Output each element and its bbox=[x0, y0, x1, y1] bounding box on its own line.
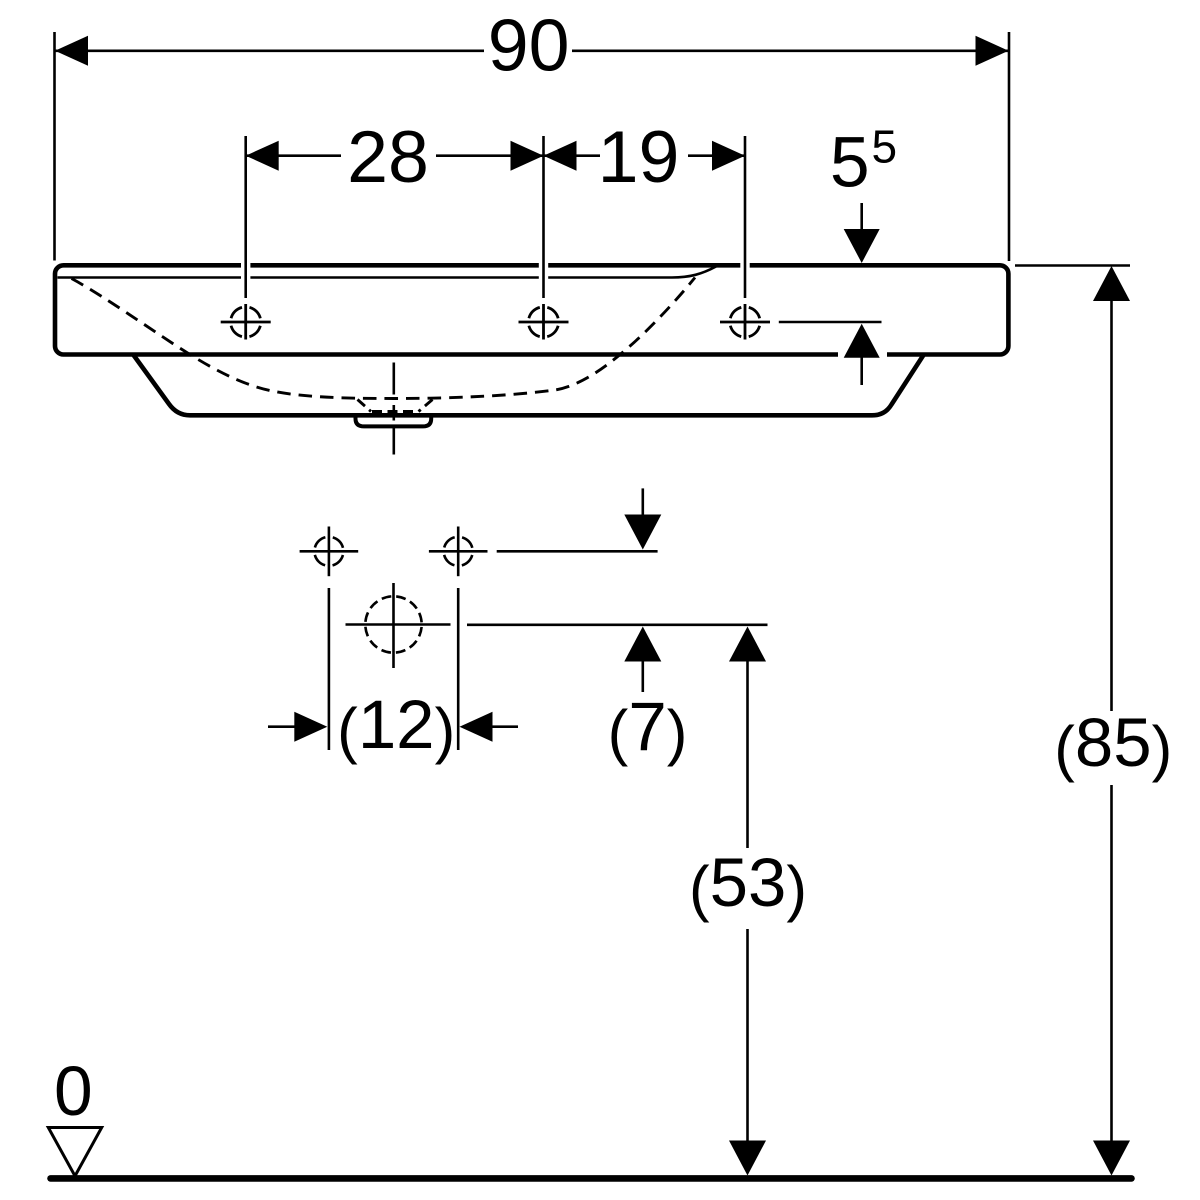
svg-text:5: 5 bbox=[830, 123, 870, 203]
svg-text:19: 19 bbox=[598, 115, 680, 198]
svg-text:(7): (7) bbox=[608, 688, 688, 767]
svg-text:5: 5 bbox=[872, 121, 898, 173]
svg-text:28: 28 bbox=[347, 115, 429, 198]
svg-text:(53): (53) bbox=[689, 844, 807, 923]
svg-text:(85): (85) bbox=[1054, 704, 1172, 783]
svg-text:0: 0 bbox=[54, 1052, 93, 1130]
svg-text:90: 90 bbox=[488, 4, 570, 87]
svg-text:(12): (12) bbox=[337, 686, 455, 765]
